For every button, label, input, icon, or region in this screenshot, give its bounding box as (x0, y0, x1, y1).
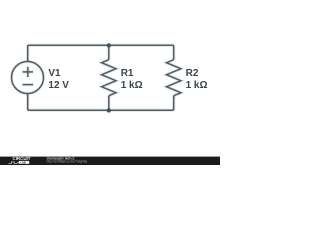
node junction top (107, 43, 111, 47)
wire top horizontal net (28, 44, 174, 46)
wire left vertical top (27, 45, 29, 61)
voltage source V1 (12, 62, 44, 94)
footer logo LAB box (19, 161, 30, 164)
resistor R1 (102, 45, 116, 110)
wire left vertical bottom (27, 94, 29, 111)
svg-text:http://circuitlab.com/c/7abg43: http://circuitlab.com/c/7abg43q (47, 160, 88, 164)
svg-text:LAB: LAB (20, 161, 25, 165)
footer logo waveform (9, 162, 19, 164)
node junction bottom (107, 108, 111, 112)
resistor R2 (167, 45, 181, 110)
footer bar (0, 157, 220, 165)
svg-text:CIRCUIT: CIRCUIT (13, 156, 31, 161)
wire bottom horizontal net (28, 109, 174, 111)
schematic soft halo (soft render of all wires and components) (12, 45, 181, 110)
